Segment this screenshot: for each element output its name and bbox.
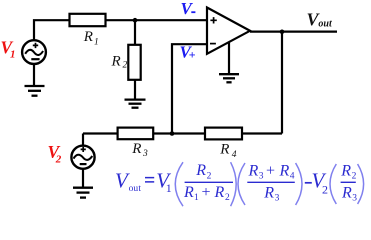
svg-text:R: R <box>195 162 206 179</box>
formula close paren 1 <box>231 162 237 206</box>
svg-text:+: + <box>266 162 275 179</box>
svg-text:V: V <box>181 0 194 18</box>
svg-text:1: 1 <box>94 37 99 47</box>
wire R3 to R4 <box>153 132 205 134</box>
formula open paren 1 <box>175 162 183 206</box>
node junction output <box>280 30 285 35</box>
node junction bottom (V+ tap) <box>170 131 175 136</box>
svg-text:R: R <box>340 162 351 179</box>
formula equals <box>145 178 154 182</box>
resistor R1 <box>70 14 106 26</box>
resistor R3 <box>118 128 154 140</box>
resistor R2 <box>128 45 140 80</box>
label V1 <box>1 37 16 60</box>
resistor R4 <box>205 128 242 140</box>
wire R2 stem top <box>134 20 136 45</box>
wire V2 bottom stem <box>82 169 84 188</box>
formula close paren 3 <box>358 164 364 204</box>
svg-text:out: out <box>318 19 333 30</box>
formula fraction bar 1 <box>185 181 233 183</box>
wire V1 top to R1 <box>34 20 70 40</box>
svg-text:3: 3 <box>259 172 264 182</box>
svg-text:R: R <box>131 141 141 157</box>
svg-text:2: 2 <box>322 183 328 197</box>
svg-text:t: t <box>138 184 141 194</box>
label V- (inverting node) <box>181 0 196 18</box>
label Vout <box>307 9 333 29</box>
ground (V2) <box>73 188 93 198</box>
source V1 <box>22 40 46 64</box>
svg-text:R: R <box>341 184 352 201</box>
label R3 <box>131 141 148 159</box>
svg-text:R: R <box>248 162 259 179</box>
svg-text:ou: ou <box>129 184 139 194</box>
svg-text:4: 4 <box>290 172 295 182</box>
wire op-amp ground stem <box>228 42 230 75</box>
svg-text:R: R <box>111 54 121 70</box>
label R1 <box>83 29 99 47</box>
wire V+ node to op-amp - input <box>172 44 207 133</box>
formula minus <box>305 182 312 184</box>
svg-text:2: 2 <box>123 61 128 71</box>
ground (op-amp) <box>219 74 239 82</box>
svg-text:3: 3 <box>275 194 280 204</box>
source V2 <box>71 146 94 169</box>
svg-text:1: 1 <box>194 193 199 203</box>
wire R2 stem bottom <box>134 80 136 100</box>
label R2 <box>111 54 128 71</box>
svg-text:+: + <box>202 184 211 201</box>
op-amp U1 <box>207 8 250 54</box>
svg-text:R: R <box>263 184 274 201</box>
svg-text:4: 4 <box>232 150 237 160</box>
ground (R2) <box>125 100 146 108</box>
formula close paren 2 <box>296 163 302 205</box>
svg-text:R: R <box>83 29 93 45</box>
wire output <box>250 31 337 33</box>
svg-text:2: 2 <box>207 171 212 181</box>
formula Vout = V1 (R2/(R1+R2))((R3+R4)/R3) - V2 (R2/R3) <box>115 162 364 206</box>
svg-text:1: 1 <box>10 49 16 61</box>
svg-text:2: 2 <box>55 154 62 166</box>
svg-text:R: R <box>183 184 194 201</box>
formula fraction bar 2 <box>247 181 294 183</box>
wire V2 to R3 <box>83 132 118 134</box>
wire R1 to op-amp + input <box>106 19 208 21</box>
svg-text:3: 3 <box>142 149 148 159</box>
wire V2 top stem <box>82 134 84 146</box>
svg-text:3: 3 <box>352 194 357 204</box>
svg-text:R: R <box>214 184 225 201</box>
svg-text:2: 2 <box>352 172 357 182</box>
formula open paren 3 <box>330 164 336 204</box>
label R4 <box>219 142 237 161</box>
wire R4 to feedback corner <box>242 132 282 134</box>
wire V1 bottom to ground <box>33 64 35 86</box>
label V2 <box>48 142 62 165</box>
svg-text:R: R <box>279 162 290 179</box>
node junction top (R2 tap) <box>133 18 138 23</box>
svg-text:1: 1 <box>166 181 172 195</box>
wire feedback vertical <box>281 32 283 134</box>
formula fraction bar 3 <box>341 181 356 183</box>
svg-text:2: 2 <box>225 193 230 203</box>
svg-text:R: R <box>219 142 229 158</box>
svg-text:+: + <box>189 48 196 62</box>
ground (V1) <box>25 86 45 96</box>
formula open paren 2 <box>238 163 245 205</box>
label V+ (non-inverting node) <box>180 42 196 61</box>
